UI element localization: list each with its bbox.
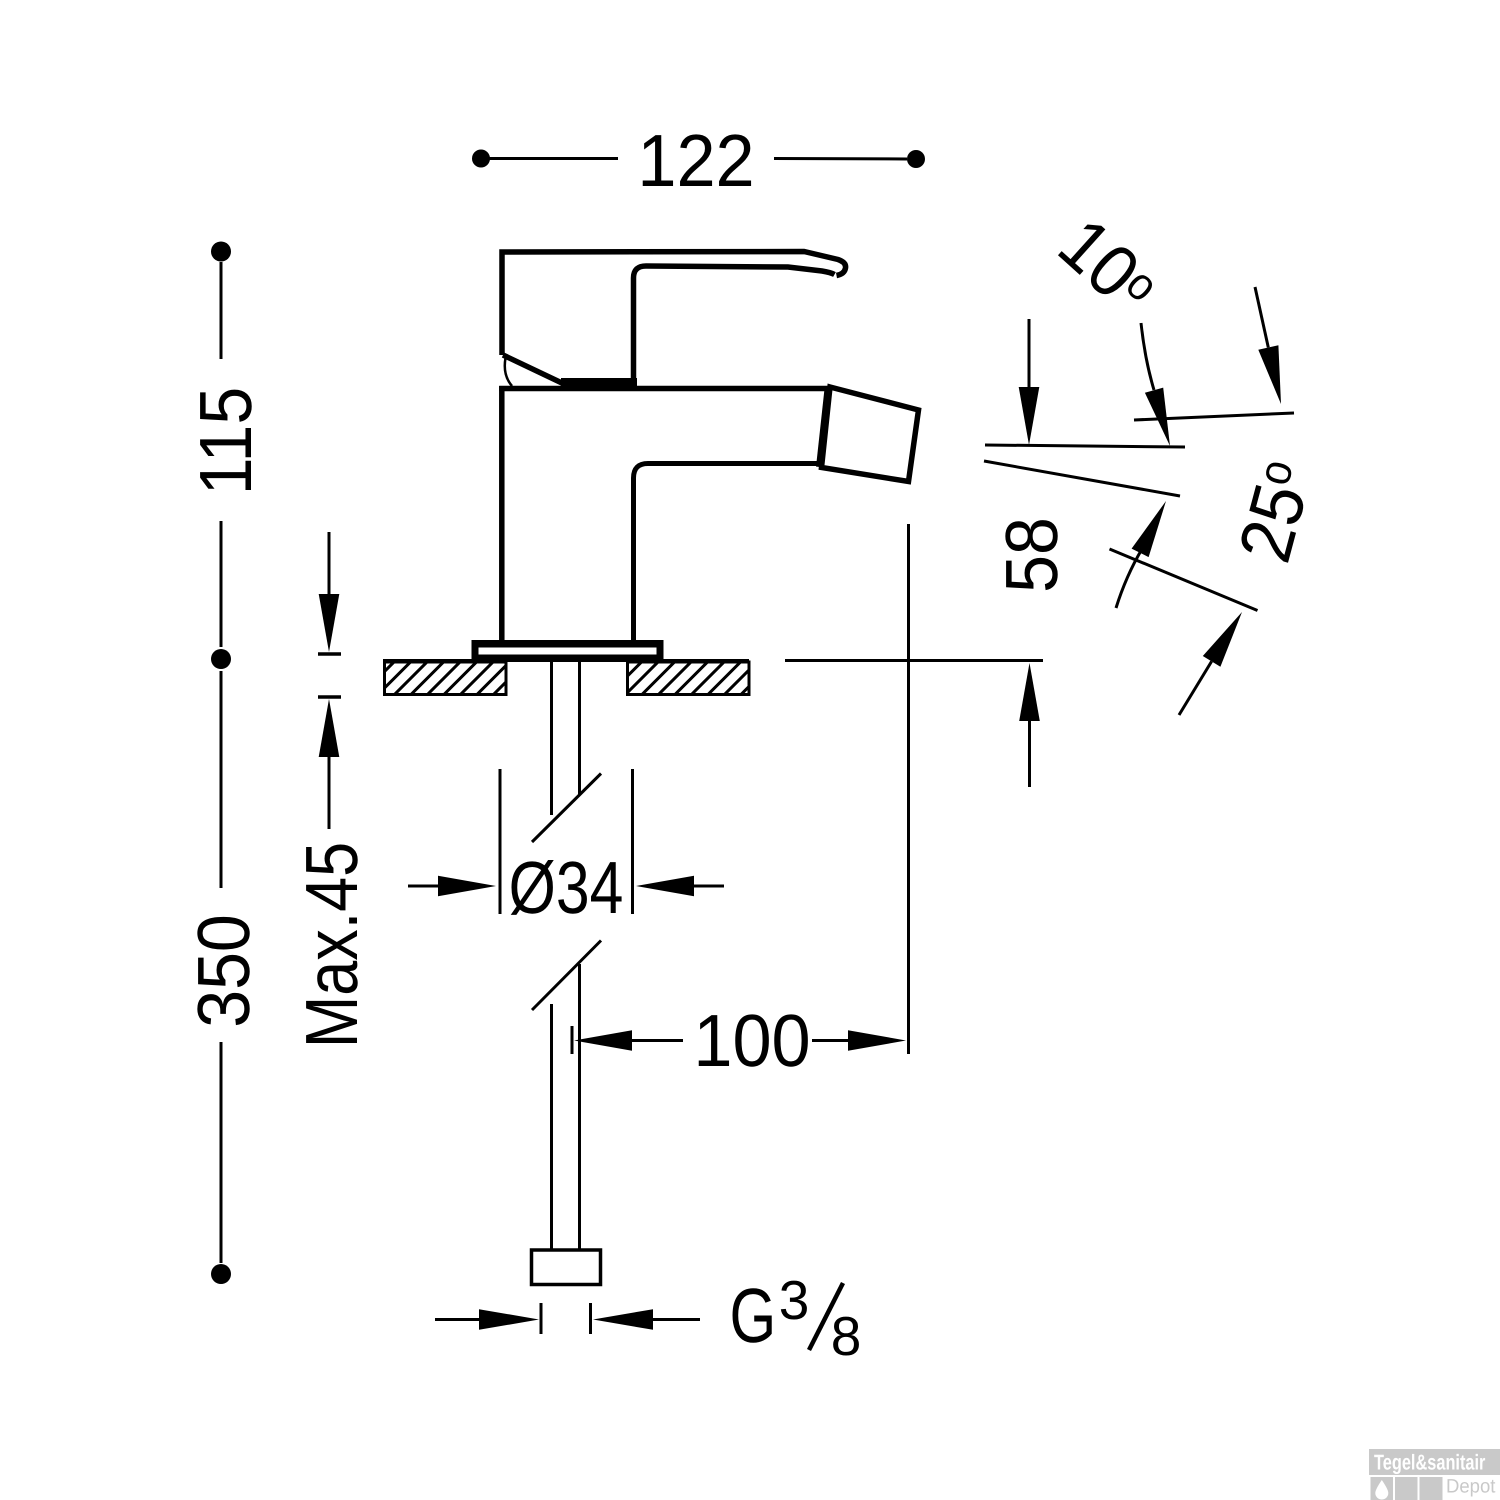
dimension 58: value label (rotated)	[990, 517, 1073, 593]
svg-text:100: 100	[693, 999, 810, 1082]
svg-text:58: 58	[990, 517, 1073, 593]
dimension 122 top: right leader line	[774, 157, 907, 161]
angle 10 deg: curved leader arrow	[1141, 323, 1170, 446]
dimension 350 left: upper line	[220, 671, 223, 888]
dimension 122 top: right dot	[907, 150, 925, 168]
countertop hatched slab right	[628, 662, 750, 695]
dimension Max.45: upper tick	[318, 652, 341, 656]
dimension 350 left: value label 350 (rotated)	[182, 914, 265, 1028]
svg-text:122: 122	[637, 119, 754, 202]
angle 10 deg: value label (rotated)	[1043, 202, 1172, 330]
dimension Max.45: lower tick	[318, 695, 341, 699]
countertop hatched slab left	[385, 662, 507, 695]
supply pipe right line lower segment	[578, 964, 581, 1249]
watermark bar Tegel&sanitair	[1369, 1449, 1500, 1475]
dimension G3/8: left tick	[540, 1303, 543, 1334]
dimension O34: right arrow	[636, 876, 724, 897]
dimension 58: bottom up-arrow onto countertop line	[1019, 663, 1040, 787]
svg-text:115: 115	[184, 387, 267, 496]
svg-text:Depot: Depot	[1446, 1476, 1496, 1498]
dimension 115 left: upper line	[220, 262, 223, 359]
upper reference line E	[1134, 413, 1294, 420]
horizontal reference line A (spout level)	[985, 445, 1185, 447]
svg-text:350: 350	[182, 914, 265, 1028]
watermark square 3	[1420, 1477, 1443, 1500]
dimension G3/8: left arrow	[435, 1309, 539, 1330]
svg-text:G: G	[730, 1273, 777, 1359]
dimension 350 left: lower line	[220, 1042, 223, 1263]
dimension O34: right extension line	[631, 769, 634, 914]
faucet handle: diagonal front face	[503, 355, 564, 384]
pipe break slash lower	[532, 941, 601, 1011]
dimension 115 left: lower line	[220, 521, 223, 647]
dimension 100: value label	[693, 999, 810, 1082]
svg-text:Max.45: Max.45	[290, 842, 373, 1048]
faucet handle lever: outer outline (left edge, top, tip)	[502, 252, 846, 356]
supply pipe left line upper segment	[550, 662, 553, 815]
dimension 350 left: bottom dot	[211, 1264, 231, 1284]
dimension G3/8: right arrow	[593, 1309, 700, 1330]
dimension O34: left arrow	[408, 876, 496, 897]
faucet base flange	[472, 640, 664, 661]
supply pipe left line lower segment	[550, 1004, 553, 1249]
faucet body: right joint to nozzle (thick)	[820, 389, 829, 467]
angle 25 deg: curved leader arrow to line B	[1116, 501, 1166, 608]
pipe break slash upper	[532, 774, 601, 843]
thread label fraction slash	[809, 1283, 843, 1350]
thread label denominator 8	[831, 1305, 862, 1367]
dimension G3/8: right tick	[589, 1303, 592, 1334]
angle 10 deg: straight leader arrow to line E	[1255, 287, 1281, 404]
dimension 100: right arrow	[812, 1030, 906, 1051]
dimension 58: top down-arrow onto line A	[1019, 319, 1040, 445]
vertical extension line from nozzle to 100 dimension	[907, 524, 910, 1054]
countertop surface line (left of 58-dim gap)	[383, 659, 749, 662]
shared dot between 115 and 350 dimensions	[211, 649, 231, 669]
watermark text Depot	[1446, 1476, 1496, 1498]
faucet nozzle outlet (tilted square)	[822, 387, 919, 482]
faucet body: top edge	[499, 386, 830, 392]
faucet handle: thick base bar overlap	[561, 378, 637, 389]
angle 25 deg: value label (rotated)	[1222, 453, 1328, 570]
dimension Max.45: label Max.45 (rotated)	[290, 842, 373, 1048]
dimension 115 left: value label 115 (rotated)	[184, 387, 267, 496]
dimension 122 top: left leader line	[489, 157, 618, 160]
lower reference line D (25 deg)	[1110, 549, 1258, 611]
dimension Max.45: upper down-arrow	[319, 532, 340, 652]
faucet handle: pivot arc	[505, 358, 512, 386]
faucet body: spout underside and inner column edge	[634, 464, 819, 645]
svg-text:Tegel&sanitair: Tegel&sanitair	[1374, 1451, 1486, 1475]
spout axis line B (10 deg)	[984, 461, 1180, 496]
dimension 100: left tick	[571, 1026, 574, 1054]
countertop surface extension line (right)	[785, 659, 1043, 662]
watermark square 2	[1395, 1477, 1418, 1500]
svg-text:Ø34: Ø34	[509, 846, 624, 929]
dimension 100: left arrow	[574, 1030, 683, 1051]
supply hose end nut	[532, 1250, 601, 1285]
supply pipe right line upper segment	[578, 662, 581, 795]
faucet handle lever: underside edge and body cap (rounded corner)	[634, 266, 835, 381]
thread label G	[730, 1273, 777, 1359]
dimension O34: left extension line	[499, 769, 502, 914]
thread label numerator 3	[779, 1269, 810, 1331]
faucet body: left edge	[499, 386, 505, 644]
svg-text:8: 8	[831, 1305, 862, 1367]
dimension Max.45: lower up-arrow	[319, 699, 340, 829]
dimension 122 top: left dot	[472, 150, 490, 168]
watermark square with droplet	[1371, 1477, 1394, 1500]
dimension 115 left: top dot	[211, 242, 231, 262]
angle 25 deg: straight leader arrow to line D	[1179, 612, 1242, 715]
svg-text:3: 3	[779, 1269, 810, 1331]
dimension 122 top: value label 122	[637, 119, 754, 202]
dimension O34: value label	[509, 846, 624, 929]
